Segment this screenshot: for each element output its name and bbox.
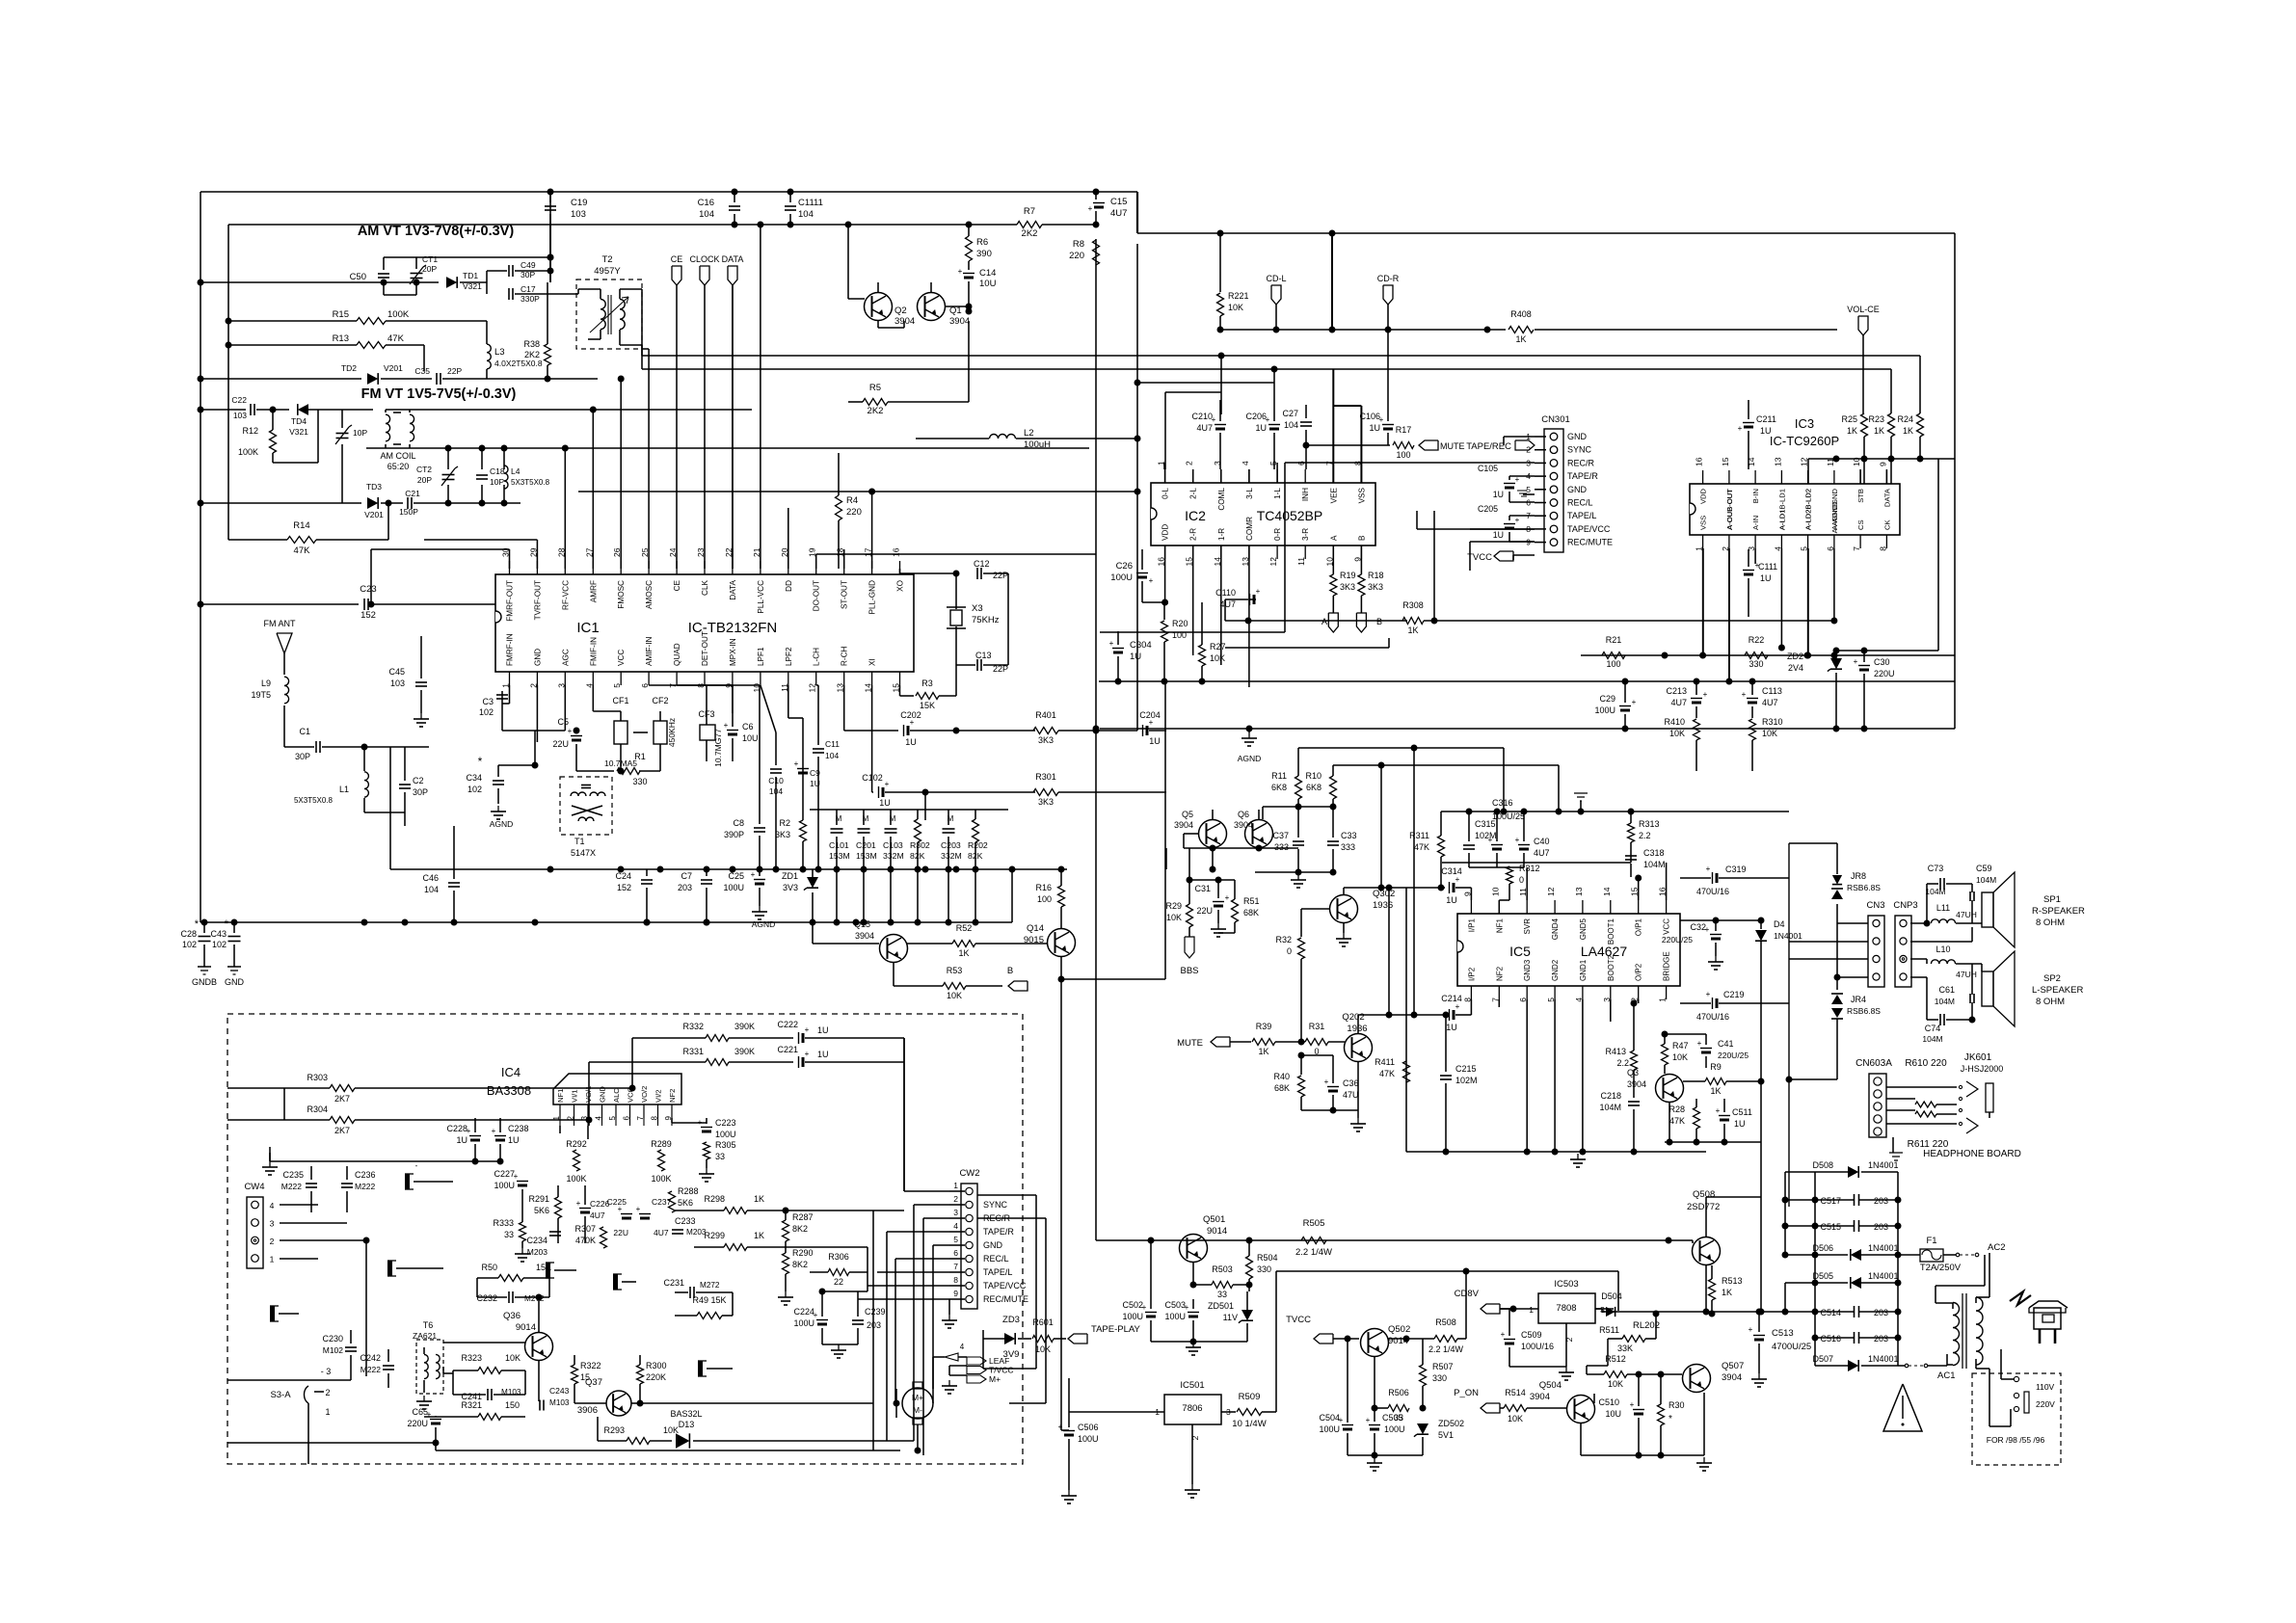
svg-text:+: + (492, 1127, 496, 1135)
svg-text:C32: C32 (1690, 922, 1706, 932)
svg-text:C7: C7 (681, 871, 692, 881)
svg-text:R506: R506 (1388, 1388, 1409, 1397)
svg-text:R17: R17 (1396, 425, 1412, 435)
svg-text:100U: 100U (715, 1130, 736, 1139)
svg-text:NF2: NF2 (1495, 966, 1504, 981)
svg-text:13: 13 (1574, 887, 1584, 896)
svg-text:104: 104 (825, 751, 839, 760)
svg-text:C29: C29 (1599, 694, 1615, 704)
svg-text:R507: R507 (1432, 1362, 1454, 1371)
svg-text:C14: C14 (979, 268, 996, 279)
svg-text:47K: 47K (1669, 1116, 1685, 1126)
svg-text:C40: C40 (1534, 837, 1550, 846)
svg-text:C21: C21 (405, 489, 420, 498)
svg-text:PLL-VCC: PLL-VCC (757, 580, 765, 614)
svg-text:I/P1: I/P1 (1467, 918, 1476, 932)
svg-text:2.2: 2.2 (1616, 1058, 1629, 1068)
svg-text:Q508: Q508 (1693, 1189, 1715, 1200)
svg-text:L3: L3 (494, 347, 505, 358)
svg-text:1U: 1U (1760, 573, 1772, 583)
svg-text:+: + (576, 1199, 581, 1208)
svg-text:330: 330 (632, 777, 647, 786)
svg-text:AC1: AC1 (1937, 1370, 1955, 1381)
svg-text:B-IN: B-IN (1751, 489, 1760, 503)
svg-text:VSS: VSS (1357, 487, 1366, 503)
svg-text:R505: R505 (1303, 1218, 1325, 1229)
svg-text:+: + (1703, 690, 1708, 699)
svg-text:TAPE/R: TAPE/R (983, 1227, 1014, 1237)
svg-text:L9: L9 (261, 678, 271, 688)
svg-text:R408: R408 (1510, 309, 1532, 319)
svg-text:104: 104 (699, 209, 714, 220)
svg-text:C214: C214 (1441, 994, 1462, 1003)
svg-text:110V: 110V (2036, 1382, 2055, 1392)
svg-text:153M: 153M (856, 851, 877, 861)
svg-text:2K2: 2K2 (868, 406, 884, 416)
svg-text:V201: V201 (384, 363, 403, 373)
svg-text:R18: R18 (1368, 571, 1384, 580)
svg-text:GND5: GND5 (1579, 918, 1588, 940)
svg-text:47K: 47K (1379, 1069, 1395, 1078)
svg-text:+: + (1742, 690, 1747, 699)
svg-text:4U7: 4U7 (1196, 423, 1213, 433)
svg-text:1N4001: 1N4001 (1868, 1243, 1899, 1253)
svg-text:R14: R14 (293, 520, 309, 531)
svg-text:GND: GND (1567, 432, 1588, 441)
svg-text:C222: C222 (777, 1020, 798, 1029)
svg-text:9: 9 (1878, 462, 1887, 466)
svg-text:R300: R300 (646, 1361, 667, 1370)
svg-text:6K8: 6K8 (1306, 783, 1322, 792)
svg-text:R13: R13 (333, 333, 349, 344)
svg-text:3-L: 3-L (1245, 488, 1254, 499)
svg-text:VDD: VDD (1699, 488, 1708, 504)
svg-text:*: * (195, 918, 200, 930)
svg-text:C316: C316 (1492, 798, 1513, 808)
svg-text:F1: F1 (1926, 1236, 1936, 1246)
svg-text:150P: 150P (399, 507, 418, 517)
svg-text:BOOT2: BOOT2 (1607, 954, 1615, 981)
svg-text:C219: C219 (1723, 990, 1745, 999)
svg-text:100U/16: 100U/16 (1521, 1342, 1554, 1351)
svg-text:22: 22 (834, 1277, 843, 1287)
svg-text:1U: 1U (1446, 1023, 1457, 1032)
svg-text:1U: 1U (1493, 530, 1504, 540)
svg-text:3-R: 3-R (1301, 528, 1310, 541)
svg-text:+: + (1149, 576, 1154, 585)
svg-text:5K6: 5K6 (534, 1206, 549, 1215)
svg-text:R298: R298 (704, 1194, 725, 1204)
svg-text:11: 11 (1826, 458, 1835, 466)
svg-text:C28: C28 (180, 929, 197, 939)
svg-text:10K: 10K (505, 1353, 521, 1363)
svg-text:ALC: ALC (612, 1088, 621, 1103)
svg-text:1: 1 (1529, 1305, 1534, 1315)
svg-text:1K: 1K (1903, 426, 1913, 436)
svg-text:C234: C234 (526, 1236, 547, 1245)
svg-text:C232: C232 (476, 1293, 497, 1303)
svg-text:- 3: - 3 (321, 1367, 332, 1376)
svg-text:10K: 10K (1608, 1379, 1623, 1389)
svg-text:DATA: DATA (1882, 488, 1891, 507)
svg-text:V321: V321 (289, 427, 308, 437)
svg-text:C319: C319 (1725, 865, 1747, 874)
svg-text:Q502: Q502 (1388, 1324, 1410, 1335)
svg-text:C74: C74 (1925, 1024, 1941, 1033)
svg-text:C49: C49 (521, 260, 536, 270)
svg-text:152: 152 (617, 883, 631, 892)
svg-text:220V: 220V (2036, 1399, 2055, 1409)
svg-text:47U: 47U (1343, 1090, 1359, 1100)
svg-text:0: 0 (1519, 875, 1524, 885)
svg-text:R313: R313 (1639, 819, 1660, 829)
svg-text:+: + (1455, 875, 1460, 884)
svg-text:C110: C110 (1215, 588, 1236, 598)
svg-text:DO-OUT: DO-OUT (813, 580, 821, 611)
svg-text:152: 152 (360, 610, 376, 621)
svg-text:100U: 100U (1078, 1434, 1099, 1444)
svg-text:TD2: TD2 (341, 363, 357, 373)
svg-text:DATA: DATA (722, 254, 744, 264)
svg-text:+: + (568, 727, 573, 735)
svg-text:FMOSC: FMOSC (617, 580, 626, 609)
svg-text:104M: 104M (1643, 860, 1666, 869)
svg-text:C15: C15 (1110, 197, 1127, 207)
svg-text:100U: 100U (1110, 572, 1133, 583)
svg-text:2.2: 2.2 (1639, 831, 1651, 840)
svg-text:NF2: NF2 (668, 1089, 677, 1103)
svg-text:1K: 1K (1515, 334, 1526, 344)
svg-text:0-L: 0-L (1161, 488, 1170, 499)
svg-text:COMR: COMR (1245, 517, 1254, 541)
svg-text:L10: L10 (1936, 945, 1950, 954)
svg-text:330: 330 (1432, 1373, 1447, 1383)
svg-text:B: B (1357, 535, 1366, 541)
svg-text:SP1: SP1 (2043, 894, 2061, 905)
svg-text:MUTE: MUTE (1440, 441, 1465, 451)
svg-text:DATA: DATA (729, 579, 737, 599)
svg-text:4: 4 (270, 1201, 275, 1211)
svg-text:203: 203 (678, 883, 692, 892)
svg-text:+: + (724, 721, 729, 730)
svg-text:LA4627: LA4627 (1581, 944, 1627, 959)
svg-text:R610 220: R610 220 (1905, 1058, 1947, 1069)
svg-text:C213: C213 (1666, 686, 1687, 696)
svg-text:100U: 100U (1594, 705, 1615, 715)
svg-text:GND1: GND1 (1579, 959, 1588, 981)
svg-text:3K3: 3K3 (1368, 582, 1383, 592)
svg-text:C17: C17 (521, 284, 536, 294)
svg-text:+: + (1488, 836, 1493, 844)
svg-text:65:20: 65:20 (387, 462, 410, 471)
svg-text:8K2: 8K2 (792, 1260, 808, 1269)
svg-text:75KHz: 75KHz (972, 615, 1000, 625)
svg-text:TVCC: TVCC (1286, 1315, 1311, 1325)
svg-text:CN301: CN301 (1541, 414, 1570, 425)
svg-text:J-HSJ2000: J-HSJ2000 (1961, 1064, 2004, 1074)
svg-text:C105: C105 (1478, 464, 1498, 473)
svg-text:AC2: AC2 (1988, 1242, 2005, 1253)
svg-text:A-IN: A-IN (1751, 516, 1760, 530)
svg-text:2SD772: 2SD772 (1687, 1202, 1720, 1212)
svg-text:C211: C211 (1756, 414, 1776, 424)
svg-text:VO/2: VO/2 (640, 1086, 649, 1103)
svg-text:1U: 1U (817, 1050, 829, 1059)
svg-text:22U: 22U (613, 1228, 628, 1237)
svg-text:C73: C73 (1928, 864, 1944, 873)
svg-text:102: 102 (212, 940, 227, 949)
svg-text:+: + (1515, 516, 1520, 524)
svg-text:330P: 330P (521, 294, 540, 304)
svg-text:1N4001: 1N4001 (1868, 1354, 1899, 1364)
svg-text:C26: C26 (1116, 561, 1133, 572)
svg-text:203: 203 (1874, 1222, 1888, 1232)
svg-text:ST-OUT: ST-OUT (841, 580, 849, 609)
svg-text:L1: L1 (339, 785, 349, 794)
svg-text:+: + (1324, 1078, 1329, 1086)
svg-text:1U: 1U (1493, 490, 1504, 499)
svg-text:D505: D505 (1812, 1271, 1833, 1281)
svg-text:R287: R287 (792, 1212, 814, 1222)
svg-text:LPF1: LPF1 (757, 647, 765, 666)
svg-text:BRIDGE: BRIDGE (1663, 951, 1671, 981)
svg-text:CS: CS (1856, 519, 1865, 530)
svg-text:R-SPEAKER: R-SPEAKER (2032, 906, 2085, 917)
svg-text:Q14: Q14 (1027, 923, 1044, 934)
svg-text:JR4: JR4 (1851, 995, 1866, 1004)
svg-text:102: 102 (479, 707, 494, 717)
svg-text:C210: C210 (1191, 412, 1213, 421)
svg-text:4U7: 4U7 (1670, 698, 1687, 707)
svg-text:XO: XO (896, 580, 905, 592)
svg-text:C22: C22 (231, 395, 247, 405)
svg-text:R49 15K: R49 15K (692, 1295, 726, 1305)
svg-text:+: + (1366, 1416, 1371, 1424)
svg-text:203: 203 (1874, 1196, 1888, 1206)
svg-text:C35: C35 (414, 366, 430, 376)
svg-text:C514: C514 (1820, 1308, 1841, 1317)
svg-text:Q6: Q6 (1238, 810, 1249, 819)
svg-text:CK: CK (1882, 519, 1891, 530)
svg-text:MPX-IN: MPX-IN (729, 638, 737, 666)
svg-text:CLOCK: CLOCK (689, 254, 719, 264)
svg-text:C24: C24 (615, 871, 631, 881)
svg-text:102: 102 (467, 785, 482, 794)
svg-text:SYNC: SYNC (1567, 445, 1592, 455)
svg-text:R23: R23 (1868, 414, 1884, 424)
svg-text:100: 100 (1037, 894, 1052, 904)
svg-text:4U7: 4U7 (1110, 208, 1127, 219)
svg-text:M222: M222 (355, 1182, 376, 1191)
svg-text:10: 10 (1490, 887, 1500, 896)
svg-text:104M: 104M (1935, 997, 1955, 1006)
svg-text:Q3: Q3 (1627, 1068, 1639, 1078)
svg-text:TD1: TD1 (463, 271, 478, 280)
svg-text:L-SPEAKER: L-SPEAKER (2032, 985, 2083, 996)
svg-text:68K: 68K (1243, 908, 1259, 918)
svg-text:9014: 9014 (516, 1322, 536, 1333)
svg-text:R306: R306 (828, 1252, 849, 1262)
svg-text:220: 220 (846, 507, 862, 518)
svg-text:A: A (1329, 535, 1338, 541)
svg-text:47UH: 47UH (1956, 970, 1977, 979)
svg-text:R321: R321 (461, 1400, 482, 1410)
svg-text:FMRF-IN: FMRF-IN (506, 633, 515, 666)
svg-text:0: 0 (1287, 946, 1292, 956)
svg-text:3V9: 3V9 (1003, 1349, 1020, 1360)
svg-text:C227: C227 (494, 1169, 515, 1179)
svg-text:R16: R16 (1035, 883, 1052, 892)
svg-text:R53: R53 (947, 966, 963, 975)
svg-text:C304: C304 (1130, 640, 1152, 651)
svg-text:82K: 82K (968, 851, 983, 861)
svg-text:C27: C27 (1282, 409, 1298, 418)
svg-text:VI/1: VI/1 (571, 1089, 579, 1103)
svg-text:+: + (1109, 639, 1114, 648)
svg-text:D504: D504 (1601, 1291, 1622, 1301)
svg-text:9014: 9014 (1207, 1226, 1227, 1237)
svg-text:103: 103 (233, 411, 247, 420)
svg-text:O/P1: O/P1 (1635, 918, 1643, 936)
svg-text:C221: C221 (777, 1045, 798, 1054)
svg-text:D4: D4 (1774, 919, 1785, 929)
svg-text:82K: 82K (910, 851, 925, 861)
svg-text:AGND: AGND (752, 919, 776, 929)
svg-text:M103: M103 (549, 1398, 570, 1407)
svg-text:CN3: CN3 (1866, 900, 1884, 911)
svg-text:5: 5 (612, 683, 622, 688)
svg-text:VSS: VSS (1699, 516, 1708, 530)
svg-text:2: 2 (1564, 1337, 1574, 1342)
svg-text:10P: 10P (353, 428, 367, 438)
svg-text:104: 104 (1284, 420, 1298, 430)
svg-text:390K: 390K (734, 1047, 755, 1056)
svg-text:AMRF: AMRF (589, 580, 598, 602)
svg-text:R31: R31 (1309, 1022, 1325, 1031)
svg-text:1K: 1K (1847, 426, 1857, 436)
svg-text:C502: C502 (1122, 1300, 1143, 1310)
svg-text:C204: C204 (1139, 710, 1161, 720)
svg-text:R22: R22 (1749, 635, 1765, 645)
svg-text:REC/L: REC/L (983, 1254, 1009, 1264)
svg-text:IC-TC9260P: IC-TC9260P (1770, 434, 1839, 448)
svg-text:+: + (1632, 698, 1637, 706)
svg-text:C237: C237 (652, 1197, 672, 1207)
svg-text:A-OUB-OUT: A-OUB-OUT (1725, 489, 1734, 530)
svg-text:R3: R3 (921, 678, 933, 688)
svg-text:D506: D506 (1812, 1243, 1833, 1253)
svg-text:4: 4 (953, 1221, 958, 1231)
svg-text:GND: GND (983, 1240, 1003, 1250)
svg-text:SVR: SVR (1523, 918, 1532, 935)
svg-text:TAPE/L: TAPE/L (1567, 511, 1596, 520)
svg-text:REC/MUTE: REC/MUTE (983, 1294, 1028, 1304)
svg-text:IC5: IC5 (1509, 944, 1531, 959)
svg-text:3904: 3904 (1627, 1079, 1646, 1089)
svg-text:16: 16 (1695, 457, 1704, 466)
svg-text:C242: C242 (360, 1353, 381, 1363)
svg-text:R514: R514 (1505, 1388, 1526, 1397)
svg-text:FMIF-IN: FMIF-IN (589, 637, 598, 666)
svg-text:+: + (805, 1050, 810, 1058)
svg-text:R332: R332 (682, 1022, 704, 1031)
svg-text:5X3T5X0.8: 5X3T5X0.8 (294, 796, 334, 805)
svg-text:ZD3: ZD3 (1002, 1315, 1020, 1325)
svg-text:R-CH: R-CH (841, 646, 849, 666)
svg-text:13: 13 (1773, 457, 1782, 466)
svg-text:R15: R15 (333, 309, 349, 320)
svg-text:+: + (1738, 424, 1743, 433)
svg-text:+: + (1706, 865, 1711, 873)
svg-text:CW2: CW2 (959, 1168, 979, 1179)
svg-text:+: + (794, 759, 799, 768)
svg-text:+: + (1088, 204, 1093, 213)
svg-text:4957Y: 4957Y (594, 266, 621, 277)
svg-text:R10: R10 (1305, 771, 1322, 781)
svg-text:12: 12 (1546, 887, 1556, 896)
svg-text:Q507: Q507 (1722, 1361, 1744, 1371)
svg-text:C36: C36 (1343, 1078, 1359, 1088)
svg-text:103: 103 (571, 209, 586, 220)
svg-text:C506: C506 (1078, 1423, 1099, 1432)
svg-text:3904: 3904 (855, 931, 874, 941)
svg-text:5: 5 (1526, 485, 1531, 494)
svg-text:470U/16: 470U/16 (1696, 1012, 1729, 1022)
svg-text:Q302: Q302 (1373, 889, 1395, 899)
svg-text:R307: R307 (574, 1224, 596, 1234)
svg-text:REC/R: REC/R (1567, 458, 1595, 467)
svg-text:6: 6 (640, 683, 650, 688)
svg-text:10U: 10U (1605, 1409, 1621, 1419)
svg-text:R509: R509 (1239, 1392, 1261, 1402)
svg-text:1U: 1U (1734, 1119, 1746, 1129)
svg-text:+: + (1501, 1330, 1506, 1339)
svg-text:33: 33 (504, 1230, 514, 1239)
svg-text:11V: 11V (1223, 1313, 1238, 1322)
svg-text:IC1: IC1 (576, 620, 599, 636)
svg-text:C30: C30 (1874, 657, 1890, 667)
svg-text:102M: 102M (1475, 831, 1497, 840)
svg-text:1K: 1K (1722, 1288, 1732, 1297)
svg-text:R39: R39 (1256, 1022, 1272, 1031)
svg-text:4U7: 4U7 (590, 1211, 605, 1220)
svg-text:LPF2: LPF2 (785, 647, 793, 666)
svg-text:+: + (1706, 990, 1711, 998)
svg-text:2V4: 2V4 (1788, 663, 1803, 673)
svg-text:R322: R322 (580, 1361, 601, 1370)
svg-text:QUAD: QUAD (673, 643, 681, 666)
svg-text:3V3: 3V3 (783, 883, 798, 892)
svg-text:-: - (415, 1161, 418, 1170)
svg-text:6: 6 (953, 1248, 958, 1258)
svg-text:1K: 1K (958, 948, 969, 958)
svg-text:103: 103 (390, 678, 405, 688)
svg-text:C11: C11 (825, 739, 840, 749)
svg-text:CF1: CF1 (612, 696, 628, 705)
svg-text:*: * (1669, 1414, 1672, 1424)
svg-text:IC503: IC503 (1554, 1279, 1578, 1290)
svg-text:AMIF-IN: AMIF-IN (645, 636, 654, 666)
svg-text:104M: 104M (1599, 1103, 1621, 1112)
svg-text:8K2: 8K2 (792, 1224, 808, 1234)
svg-text:100K: 100K (387, 309, 410, 320)
svg-text:220K: 220K (646, 1372, 666, 1382)
svg-text:C236: C236 (355, 1170, 376, 1180)
svg-text:C25: C25 (728, 871, 744, 881)
svg-text:4U7: 4U7 (1219, 599, 1236, 609)
svg-text:C5: C5 (557, 717, 569, 727)
svg-text:CW4: CW4 (244, 1182, 264, 1192)
